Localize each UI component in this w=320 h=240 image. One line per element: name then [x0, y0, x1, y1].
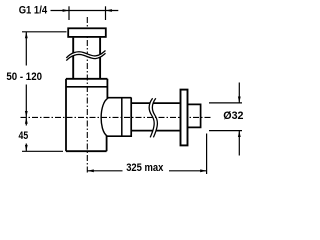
diameter extension line bottom [209, 130, 242, 132]
pipe break symbol on inlet tube [66, 51, 105, 61]
height dimension arrowheads [25, 32, 28, 118]
bottle lid bottom line [66, 86, 107, 88]
svg-text:G1 1/4: G1 1/4 [19, 5, 48, 17]
svg-text:45: 45 [19, 130, 29, 142]
diameter dimension line [238, 83, 240, 156]
vertical centerline [86, 17, 88, 173]
bottle lid top [66, 78, 107, 80]
top dimension arrowheads [63, 9, 112, 12]
bottle left wall [65, 79, 67, 151]
horizontal centerline [21, 116, 212, 118]
diameter dimension arrowheads [238, 97, 241, 138]
depth dimension extension line bottom [22, 150, 63, 152]
wall flange [181, 90, 188, 146]
svg-text:50 - 120: 50 - 120 [6, 71, 42, 83]
svg-text:Ø32: Ø32 [223, 110, 243, 122]
depth dimension arrowheads [25, 117, 28, 151]
outlet pipe top wall [131, 102, 179, 104]
inlet tube wall right [99, 38, 101, 79]
height dimension line 50-120 [25, 32, 27, 118]
top dimension line for thread [51, 6, 119, 20]
outlet pipe bottom wall [131, 130, 179, 132]
diameter extension line top [209, 102, 242, 104]
length dimension line 325 max [87, 170, 206, 172]
depth dimension line 45 [25, 117, 27, 151]
boss intersection arc [101, 98, 108, 136]
pipe break symbol on outlet pipe [149, 98, 157, 137]
length dimension arrowheads [87, 169, 206, 172]
outlet nut division line [121, 98, 123, 137]
svg-text:325 max: 325 max [126, 162, 164, 174]
pipe stub behind flange [188, 104, 201, 127]
bottle right wall upper [106, 79, 108, 98]
height dimension extension line top [22, 31, 67, 33]
bottle right wall lower [106, 136, 108, 151]
outlet nut right edge [130, 97, 132, 137]
outlet boss top [107, 97, 131, 99]
bottle bottom [66, 150, 107, 152]
outlet boss bottom [107, 135, 131, 137]
inlet nut [68, 28, 106, 37]
inlet tube wall left [72, 38, 74, 79]
length dimension extension line right [206, 134, 208, 175]
